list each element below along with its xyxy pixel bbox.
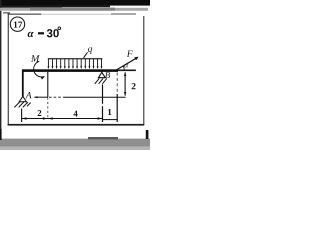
scan artifact: border top start dashes	[3, 12, 10, 13]
task number circle 17	[10, 17, 24, 31]
moment M arc	[34, 61, 44, 77]
extension line below B	[102, 85, 104, 104]
right vertical dimension line	[124, 73, 126, 96]
dim label 4	[73, 111, 77, 117]
distributed load arrowheads	[47, 66, 102, 69]
support B triangle	[98, 72, 105, 77]
extension line from A to bottom dim line	[21, 109, 23, 123]
label q	[88, 47, 92, 54]
scan artifact: top black band	[0, 0, 150, 6]
A-level horizontal reference line	[35, 96, 49, 98]
dim label 2 (right vertical)	[132, 83, 136, 89]
label alpha	[124, 64, 128, 68]
distributed load q : top line	[48, 58, 103, 59]
extension line at load start (x=48)	[47, 72, 49, 97]
label q leader line	[84, 52, 88, 58]
distributed load arrows	[48, 59, 101, 67]
border frame left	[8, 13, 9, 125]
scan artifact: bottom grey band	[0, 139, 150, 147]
moment arrowhead	[41, 76, 45, 79]
dim label 2 (left span)	[38, 110, 42, 116]
force F arrowhead	[134, 57, 138, 61]
angle alpha arc	[123, 66, 124, 70]
given text: alpha = 30 deg	[28, 32, 34, 37]
scan artifact: left edge dark line	[0, 0, 1, 141]
label F	[127, 51, 133, 57]
support A hatching	[14, 102, 30, 107]
border frame bottom	[8, 124, 145, 126]
support A triangle	[19, 96, 26, 101]
bottom dimension line	[22, 118, 103, 120]
force F line	[117, 58, 137, 70]
extension line at beam right end	[116, 73, 118, 95]
dim arrowheads	[22, 117, 102, 120]
border frame top	[8, 14, 42, 15]
label B	[105, 72, 110, 78]
label A	[25, 92, 31, 98]
label M	[31, 55, 40, 62]
thin angle reference line to the right of beam end	[118, 70, 136, 72]
scan artifact: grey streak under top band	[0, 8, 148, 11]
dim label 1	[108, 109, 111, 115]
border frame right	[143, 16, 144, 125]
support B hatching	[95, 78, 107, 83]
beam (horizontal member)	[22, 69, 118, 72]
left vertical leg (column to support A)	[22, 70, 24, 97]
